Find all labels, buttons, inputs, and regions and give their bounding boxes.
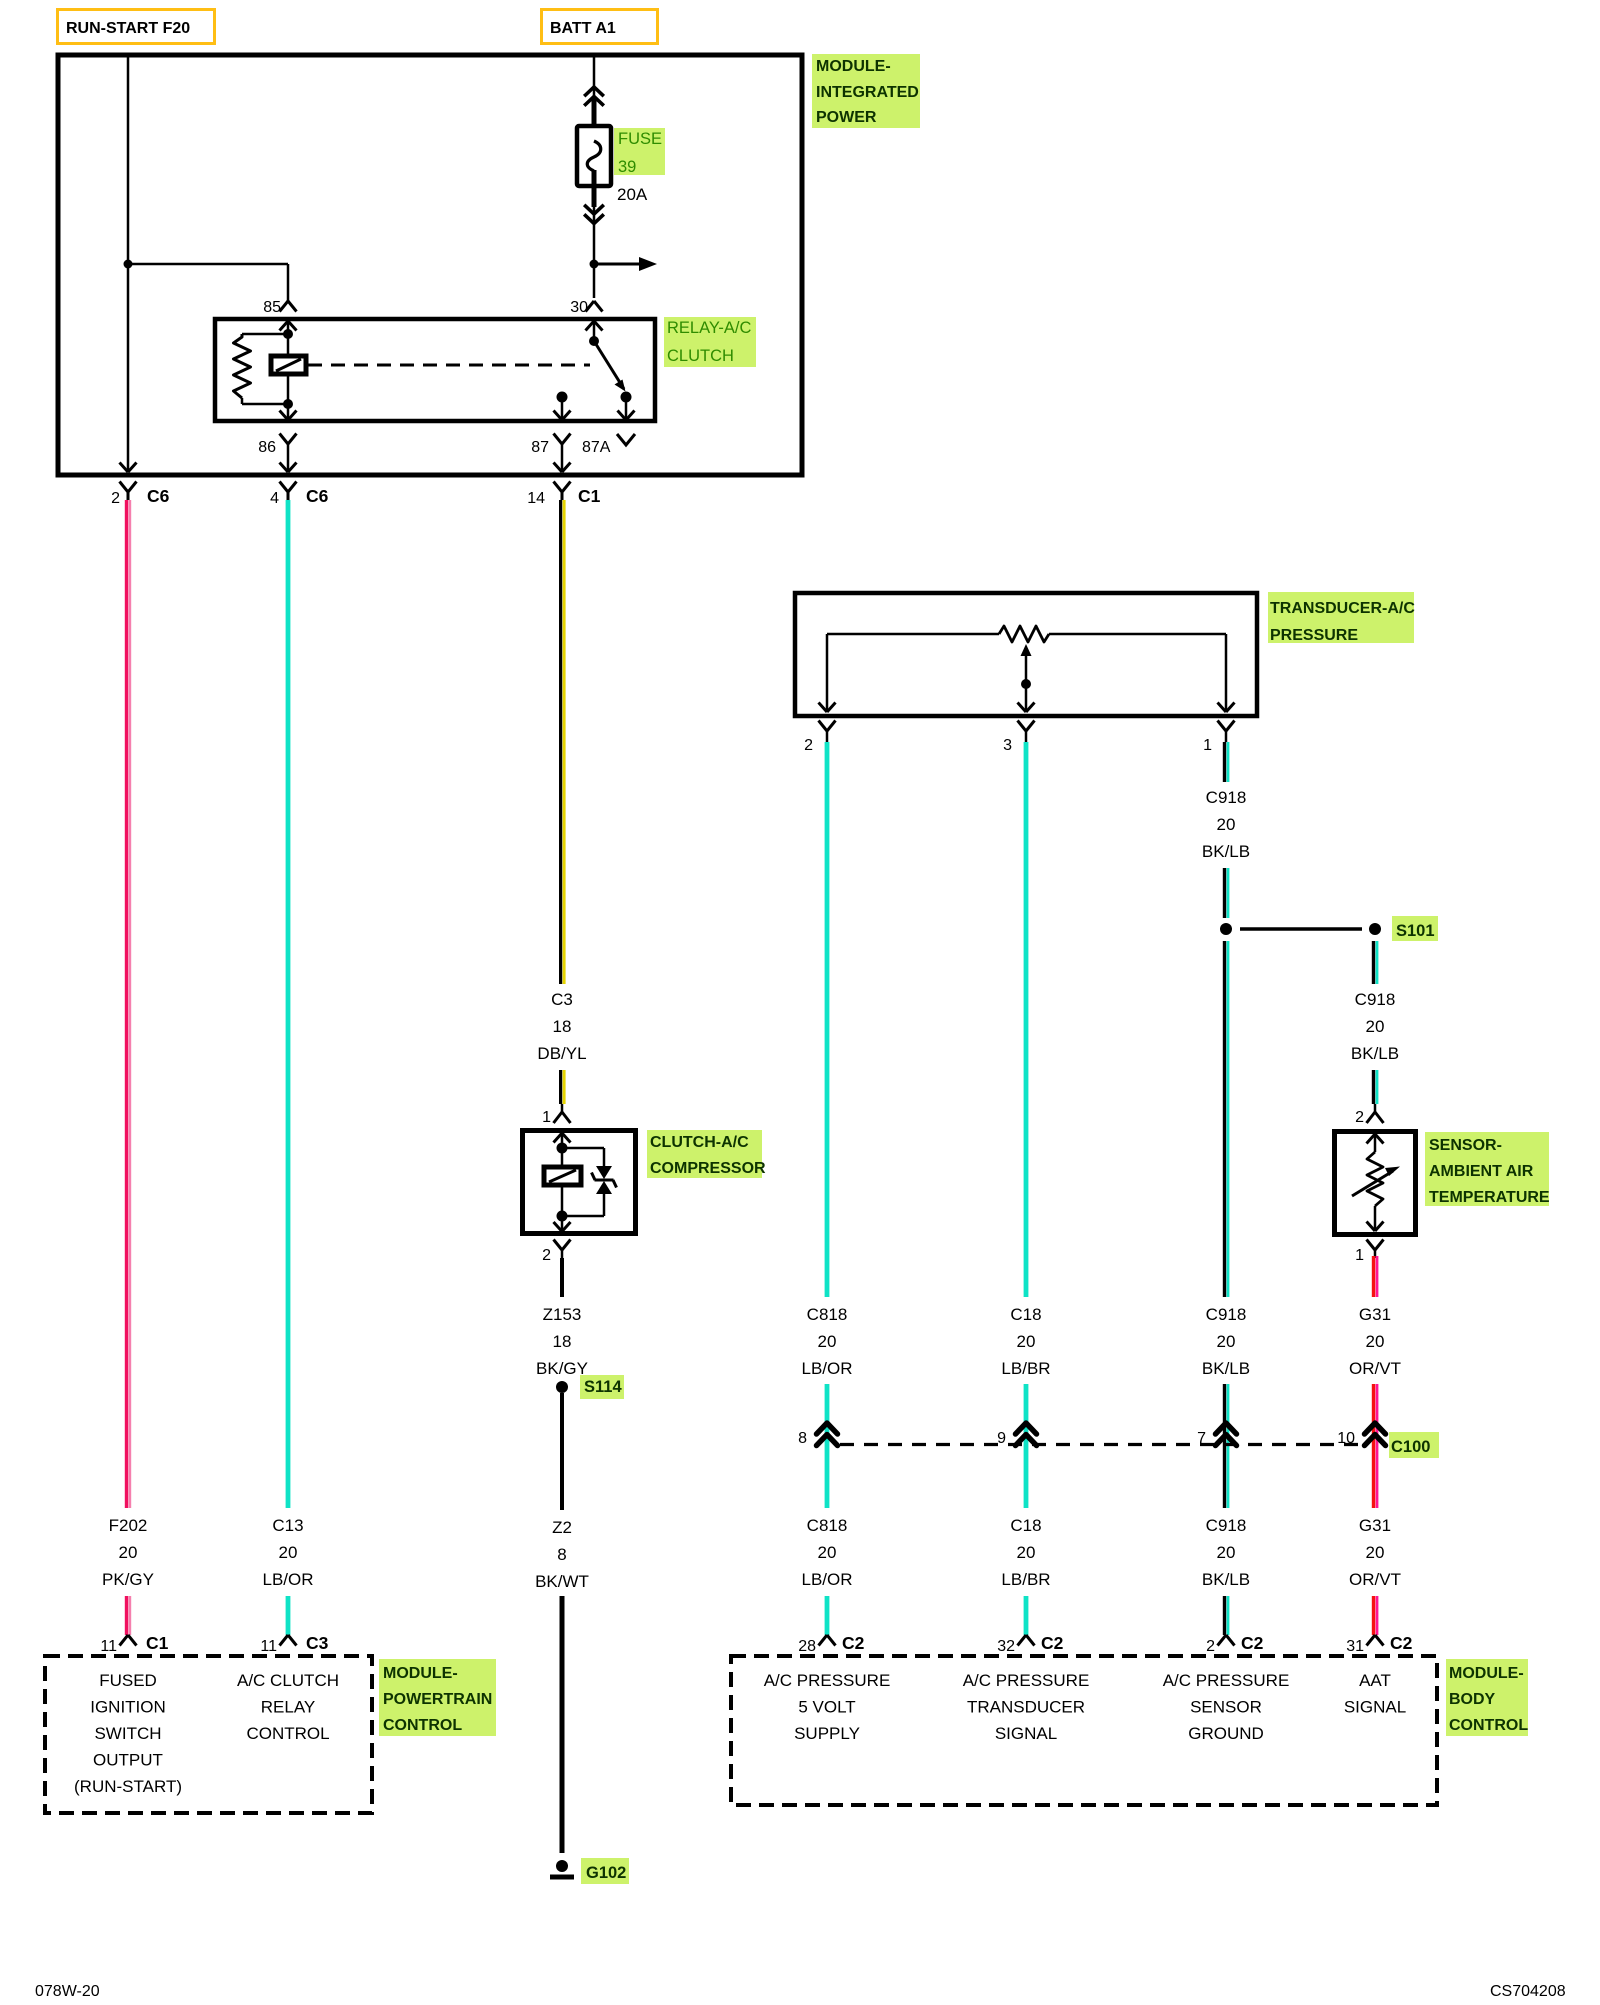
svg-text:Z153: Z153 bbox=[543, 1305, 582, 1324]
svg-text:AMBIENT AIR: AMBIENT AIR bbox=[1429, 1163, 1534, 1180]
svg-text:OUTPUT: OUTPUT bbox=[93, 1751, 163, 1770]
svg-text:C2: C2 bbox=[842, 1633, 865, 1653]
svg-text:G102: G102 bbox=[586, 1864, 626, 1882]
svg-text:BODY: BODY bbox=[1449, 1691, 1496, 1708]
svg-text:1: 1 bbox=[1203, 737, 1212, 754]
svg-text:C6: C6 bbox=[147, 486, 170, 506]
svg-text:POWER: POWER bbox=[816, 109, 877, 126]
svg-text:SIGNAL: SIGNAL bbox=[995, 1724, 1057, 1743]
svg-text:TRANSDUCER: TRANSDUCER bbox=[967, 1698, 1085, 1717]
svg-text:C1: C1 bbox=[146, 1633, 169, 1653]
svg-text:11: 11 bbox=[100, 1638, 117, 1655]
svg-text:C2: C2 bbox=[1390, 1633, 1413, 1653]
svg-text:86: 86 bbox=[258, 439, 276, 456]
svg-text:INTEGRATED: INTEGRATED bbox=[816, 84, 919, 101]
svg-text:OR/VT: OR/VT bbox=[1349, 1359, 1401, 1378]
svg-text:20: 20 bbox=[1017, 1332, 1036, 1351]
svg-text:2: 2 bbox=[1355, 1109, 1364, 1126]
svg-text:DB/YL: DB/YL bbox=[537, 1044, 586, 1063]
svg-text:20: 20 bbox=[1217, 1543, 1236, 1562]
svg-text:LB/BR: LB/BR bbox=[1001, 1570, 1050, 1589]
svg-text:S101: S101 bbox=[1396, 922, 1435, 940]
svg-text:11: 11 bbox=[260, 1638, 277, 1655]
svg-text:20: 20 bbox=[1366, 1543, 1385, 1562]
svg-text:G31: G31 bbox=[1359, 1305, 1391, 1324]
svg-text:OR/VT: OR/VT bbox=[1349, 1570, 1401, 1589]
svg-text:A/C PRESSURE: A/C PRESSURE bbox=[1163, 1671, 1290, 1690]
svg-text:20: 20 bbox=[818, 1543, 837, 1562]
svg-text:PK/GY: PK/GY bbox=[102, 1570, 154, 1589]
svg-text:F202: F202 bbox=[109, 1516, 148, 1535]
svg-text:C3: C3 bbox=[306, 1633, 329, 1653]
svg-text:FUSED: FUSED bbox=[99, 1671, 157, 1690]
svg-text:LB/BR: LB/BR bbox=[1001, 1359, 1050, 1378]
svg-text:4: 4 bbox=[270, 490, 279, 507]
svg-text:C918: C918 bbox=[1355, 990, 1396, 1009]
svg-text:PRESSURE: PRESSURE bbox=[1270, 627, 1358, 644]
svg-text:20: 20 bbox=[279, 1543, 298, 1562]
svg-text:A/C CLUTCH: A/C CLUTCH bbox=[237, 1671, 339, 1690]
svg-text:1: 1 bbox=[1355, 1247, 1364, 1264]
svg-text:18: 18 bbox=[553, 1017, 572, 1036]
svg-text:BK/LB: BK/LB bbox=[1351, 1044, 1399, 1063]
svg-text:C18: C18 bbox=[1010, 1516, 1041, 1535]
svg-text:IGNITION: IGNITION bbox=[90, 1698, 166, 1717]
svg-text:CONTROL: CONTROL bbox=[383, 1717, 462, 1734]
svg-text:C6: C6 bbox=[306, 486, 329, 506]
svg-text:20: 20 bbox=[1217, 815, 1236, 834]
svg-text:RELAY-A/C: RELAY-A/C bbox=[667, 319, 751, 337]
svg-text:POWERTRAIN: POWERTRAIN bbox=[383, 1691, 492, 1708]
svg-text:C2: C2 bbox=[1041, 1633, 1064, 1653]
svg-text:A/C PRESSURE: A/C PRESSURE bbox=[764, 1671, 891, 1690]
svg-text:C818: C818 bbox=[807, 1305, 848, 1324]
svg-text:FUSE: FUSE bbox=[618, 130, 662, 148]
svg-text:39: 39 bbox=[618, 158, 636, 176]
svg-text:SENSOR-: SENSOR- bbox=[1429, 1137, 1502, 1154]
svg-text:14: 14 bbox=[527, 490, 545, 507]
svg-text:32: 32 bbox=[997, 1638, 1015, 1655]
svg-text:CS704208: CS704208 bbox=[1490, 1983, 1566, 2000]
svg-text:BK/LB: BK/LB bbox=[1202, 1570, 1250, 1589]
svg-text:20: 20 bbox=[1366, 1017, 1385, 1036]
svg-text:18: 18 bbox=[553, 1332, 572, 1351]
svg-text:078W-20: 078W-20 bbox=[35, 1983, 100, 2000]
svg-text:C13: C13 bbox=[272, 1516, 303, 1535]
svg-text:2: 2 bbox=[542, 1247, 551, 1264]
svg-text:GROUND: GROUND bbox=[1188, 1724, 1264, 1743]
svg-text:C2: C2 bbox=[1241, 1633, 1264, 1653]
svg-text:C918: C918 bbox=[1206, 788, 1247, 807]
svg-text:A/C PRESSURE: A/C PRESSURE bbox=[963, 1671, 1090, 1690]
svg-text:BK/LB: BK/LB bbox=[1202, 1359, 1250, 1378]
svg-text:RUN-START F20: RUN-START F20 bbox=[66, 20, 190, 37]
svg-text:BATT A1: BATT A1 bbox=[550, 20, 616, 37]
svg-text:BK/LB: BK/LB bbox=[1202, 842, 1250, 861]
svg-text:85: 85 bbox=[263, 299, 281, 316]
svg-text:(RUN-START): (RUN-START) bbox=[74, 1777, 182, 1796]
svg-text:LB/OR: LB/OR bbox=[262, 1570, 313, 1589]
svg-text:20A: 20A bbox=[617, 185, 648, 204]
svg-text:20: 20 bbox=[119, 1543, 138, 1562]
svg-text:31: 31 bbox=[1346, 1638, 1364, 1655]
svg-text:CLUTCH: CLUTCH bbox=[667, 347, 734, 365]
svg-text:C918: C918 bbox=[1206, 1305, 1247, 1324]
svg-text:C818: C818 bbox=[807, 1516, 848, 1535]
svg-text:5 VOLT: 5 VOLT bbox=[798, 1698, 855, 1717]
svg-text:C1: C1 bbox=[578, 486, 601, 506]
svg-text:LB/OR: LB/OR bbox=[801, 1570, 852, 1589]
svg-text:SUPPLY: SUPPLY bbox=[794, 1724, 860, 1743]
svg-text:C100: C100 bbox=[1391, 1438, 1430, 1456]
svg-text:8: 8 bbox=[557, 1545, 566, 1564]
svg-text:C18: C18 bbox=[1010, 1305, 1041, 1324]
svg-text:RELAY: RELAY bbox=[261, 1698, 316, 1717]
svg-text:SENSOR: SENSOR bbox=[1190, 1698, 1262, 1717]
svg-text:2: 2 bbox=[1206, 1638, 1215, 1655]
svg-text:30: 30 bbox=[570, 299, 588, 316]
svg-text:Z2: Z2 bbox=[552, 1518, 572, 1537]
svg-text:C918: C918 bbox=[1206, 1516, 1247, 1535]
svg-text:87: 87 bbox=[531, 439, 549, 456]
svg-text:CLUTCH-A/C: CLUTCH-A/C bbox=[650, 1134, 749, 1151]
svg-text:20: 20 bbox=[818, 1332, 837, 1351]
svg-text:3: 3 bbox=[1003, 737, 1012, 754]
svg-text:CONTROL: CONTROL bbox=[246, 1724, 329, 1743]
svg-text:8: 8 bbox=[798, 1430, 807, 1447]
svg-text:2: 2 bbox=[111, 490, 120, 507]
svg-text:MODULE-: MODULE- bbox=[383, 1665, 458, 1682]
svg-text:MODULE-: MODULE- bbox=[1449, 1665, 1524, 1682]
svg-text:S114: S114 bbox=[584, 1378, 622, 1396]
svg-text:SWITCH: SWITCH bbox=[94, 1724, 161, 1743]
svg-text:C3: C3 bbox=[551, 990, 573, 1009]
svg-text:TRANSDUCER-A/C: TRANSDUCER-A/C bbox=[1270, 600, 1415, 617]
svg-text:2: 2 bbox=[804, 737, 813, 754]
svg-text:MODULE-: MODULE- bbox=[816, 58, 891, 75]
svg-text:1: 1 bbox=[542, 1109, 551, 1126]
svg-text:BK/WT: BK/WT bbox=[535, 1572, 589, 1591]
svg-text:AAT: AAT bbox=[1359, 1671, 1391, 1690]
svg-text:COMPRESSOR: COMPRESSOR bbox=[650, 1160, 766, 1177]
svg-text:20: 20 bbox=[1217, 1332, 1236, 1351]
svg-text:20: 20 bbox=[1366, 1332, 1385, 1351]
svg-text:G31: G31 bbox=[1359, 1516, 1391, 1535]
svg-text:28: 28 bbox=[798, 1638, 816, 1655]
svg-text:LB/OR: LB/OR bbox=[801, 1359, 852, 1378]
svg-text:20: 20 bbox=[1017, 1543, 1036, 1562]
svg-text:TEMPERATURE: TEMPERATURE bbox=[1429, 1189, 1550, 1206]
svg-text:9: 9 bbox=[997, 1430, 1006, 1447]
svg-text:CONTROL: CONTROL bbox=[1449, 1717, 1528, 1734]
svg-text:SIGNAL: SIGNAL bbox=[1344, 1698, 1406, 1717]
svg-text:87A: 87A bbox=[582, 439, 611, 456]
